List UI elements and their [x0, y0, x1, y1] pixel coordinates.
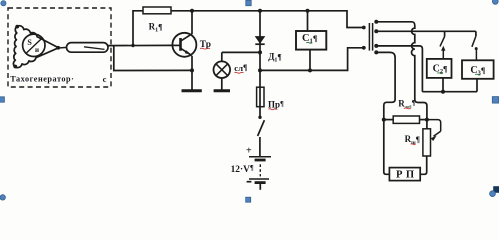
- wire: capacitor bottom rail: [422, 91, 477, 93]
- relay coil box RP: [389, 168, 420, 181]
- resistor Rdob (series box): [384, 116, 427, 123]
- node: C1 tap on top rail: [306, 9, 310, 13]
- wire: Rsh bottom to RP: [420, 156, 427, 174]
- label Rsh: [405, 134, 420, 146]
- tachogenerator TG scalloped stator outline: [13, 25, 60, 69]
- selection handle right-middle: [492, 97, 499, 104]
- resistor R1: [143, 7, 171, 14]
- wire: C2 bottom stub: [442, 78, 444, 92]
- svg-text:и: и: [35, 46, 39, 54]
- wire: socket pin A feed to Rsh network (with hop-overs): [374, 20, 427, 129]
- relay contact switch for C2: [440, 31, 446, 59]
- wire: capsule output to transistor base: [107, 44, 173, 46]
- node: diode cathode / lamp junction: [258, 50, 262, 54]
- transistor Tr (NPN in circle): [172, 11, 196, 90]
- ground bar under transistor emitter: [182, 89, 202, 92]
- connector plug pin (upper left): [362, 26, 366, 30]
- selection handle bottom-left: [0, 195, 5, 200]
- svg-text:Тахогенератор·: Тахогенератор·: [10, 74, 74, 83]
- connector mating bars: [369, 23, 372, 51]
- battery minus sign: [247, 181, 252, 183]
- node: C2 bottom rail junction: [441, 90, 445, 94]
- wire: socket pin D feed to RP relay: [374, 50, 395, 174]
- label Тр: [200, 40, 211, 50]
- relay contact switch for C3: [472, 31, 478, 60]
- fuse Пр: [257, 70, 264, 117]
- wire: lower return run from box to emitter junction: [114, 46, 192, 71]
- wire: C3 bottom stub: [476, 79, 478, 92]
- label 12 V: [231, 164, 254, 175]
- wire: socket pin C feed to capacitor bottom rail: [374, 44, 422, 92]
- selection handle left-middle: [0, 97, 4, 102]
- node: Rdob right junction: [425, 118, 429, 122]
- label Rdob: [398, 99, 415, 110]
- node: Rdob left junction: [382, 118, 386, 122]
- label Тахогенератор: [10, 74, 74, 83]
- tachogenerator rotor circle with S/i marking: [23, 34, 45, 56]
- rheostat Rsh (vertical box): [423, 129, 431, 156]
- capacitor C1 (boxed): [296, 11, 326, 71]
- label Д1: [268, 51, 282, 63]
- svg-text:сл¶: сл¶: [234, 63, 247, 73]
- rheostat wiper arm with arrow: [427, 120, 441, 141]
- wire: diode node to connector lower pin: [260, 48, 364, 71]
- label сл: [234, 63, 247, 73]
- selection handle top-middle: [246, 0, 251, 5]
- switch contact dot below fuse: [258, 116, 261, 119]
- tachogenerator shaft coupling capsule: [58, 43, 108, 53]
- node: junction of R1 branch on base wire: [131, 44, 134, 47]
- label Пр: [268, 100, 284, 110]
- wire: R1 left riser: [133, 11, 143, 46]
- node: emitter junction with return rail: [190, 68, 194, 72]
- selection handle bottom-middle: [246, 197, 251, 202]
- ground bar under lamp: [214, 89, 230, 92]
- tachogenerator dashed enclosure box: [8, 8, 111, 87]
- battery intermediate cell dots: [259, 164, 261, 176]
- signal lamp сл (circle with X): [214, 61, 231, 89]
- diode D1: [255, 11, 266, 71]
- node: diode branch on return rail: [258, 68, 262, 72]
- wire: top supply rail: [171, 11, 364, 28]
- node: diode tap on top rail: [258, 9, 262, 13]
- selection handle top-left: [1, 1, 6, 6]
- svg-text:РП: РП: [396, 170, 418, 181]
- capacitor C3 (boxed): [462, 60, 494, 79]
- svg-text:+: +: [246, 145, 252, 156]
- wire: socket pin B feed to C2/C3 switches: [374, 29, 476, 33]
- svg-text:с: с: [103, 74, 107, 84]
- battery cell 1 plates: [249, 157, 271, 160]
- wire: lamp to diode cathode link: [222, 52, 260, 61]
- power switch blade: [258, 120, 265, 156]
- label terminal c: [103, 74, 107, 84]
- capacitor C2 (boxed): [427, 59, 452, 78]
- svg-text:S: S: [27, 38, 32, 47]
- battery cell 2 plates: [249, 179, 269, 190]
- node: collector tap on top rail: [190, 9, 194, 13]
- label R1: [149, 21, 163, 33]
- selection handle bottom-right (table sizing glyph): [490, 186, 499, 196]
- battery 12V plus sign: [246, 145, 252, 156]
- node: C1 branch on return rail: [308, 68, 312, 72]
- selection handle top-right: [492, 0, 498, 4]
- connector plug pin (lower left): [362, 46, 366, 50]
